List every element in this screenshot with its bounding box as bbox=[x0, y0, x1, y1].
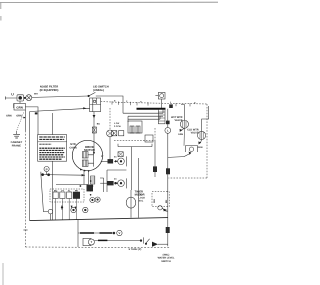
label HOT WTR VALVE bbox=[171, 116, 183, 122]
bus hooks bbox=[128, 110, 163, 123]
svg-text:S THRU (P): S THRU (P) bbox=[129, 248, 142, 251]
contact arrows bbox=[71, 206, 77, 210]
connector J1 (circle with X) bbox=[26, 95, 32, 101]
timer dashed box top bbox=[101, 102, 207, 104]
label: NOISE FILTER (IF EQUIPPED) bbox=[40, 86, 59, 92]
label CABINET FRAME bbox=[11, 141, 23, 147]
small switch boxes bbox=[112, 131, 124, 136]
link wire with raised ends bbox=[118, 144, 152, 147]
wire L1 to lid switch bbox=[32, 96, 88, 97]
small relay box bbox=[145, 135, 153, 142]
hatched coil box bbox=[158, 109, 165, 124]
label WATER LEVEL SWITCH bbox=[158, 253, 175, 262]
dark terminal bbox=[169, 104, 173, 108]
console tick bbox=[23, 229, 27, 231]
page top border bbox=[0, 1, 218, 3]
page bottom-left corner mark bbox=[2, 263, 4, 285]
terminal ticks on timer top bbox=[112, 101, 190, 106]
wire row 1 bbox=[78, 230, 122, 235]
svg-text:GRN: GRN bbox=[198, 146, 203, 149]
terminal mark bbox=[35, 112, 38, 114]
motor terminals bbox=[80, 169, 89, 172]
console dashed left bbox=[24, 131, 26, 248]
wire bbox=[50, 214, 52, 220]
wire row 2 bbox=[94, 240, 142, 242]
vertical wire w dark box bbox=[154, 140, 156, 177]
timer dashed box bottom-right bbox=[169, 177, 208, 179]
drive motor M1 bbox=[72, 140, 102, 170]
svg-text:1 CW: 1 CW bbox=[114, 122, 119, 125]
svg-text:J: J bbox=[170, 101, 171, 104]
circled terminal P bbox=[44, 166, 49, 171]
terminal block on dashed line bbox=[118, 152, 123, 157]
start switch block bbox=[87, 185, 94, 192]
junction dot bbox=[61, 207, 63, 209]
inline connector box bbox=[92, 127, 96, 133]
wire to GRN box bbox=[14, 101, 20, 108]
start winding bar bbox=[91, 176, 95, 184]
wire row 2 terminal box bbox=[83, 238, 94, 245]
dark component on right vertical bbox=[166, 168, 170, 174]
label GRN arrow bbox=[16, 115, 25, 119]
dark component lower bbox=[166, 227, 170, 233]
svg-text:BK: BK bbox=[165, 199, 168, 203]
GRN terminal box bbox=[14, 103, 25, 110]
svg-text:GRN: GRN bbox=[16, 105, 22, 109]
svg-text:FRAME: FRAME bbox=[12, 144, 21, 147]
hot water valve solenoid bbox=[178, 104, 188, 146]
label LID LOCK bbox=[139, 193, 146, 202]
circled terminal T bbox=[48, 209, 53, 214]
start switch assembly top bbox=[56, 184, 88, 186]
svg-text:T: T bbox=[91, 240, 93, 244]
tick bbox=[61, 205, 63, 210]
svg-text:PK: PK bbox=[75, 189, 78, 192]
svg-text:LOCK: LOCK bbox=[139, 196, 146, 199]
svg-text:CONN: CONN bbox=[69, 146, 77, 149]
motor winding 2 bbox=[82, 160, 88, 166]
row A-B link bbox=[107, 170, 126, 192]
motor lead from lid switch bbox=[93, 112, 95, 153]
winding taps bbox=[88, 151, 94, 167]
wire from lid switch to timer bbox=[96, 96, 123, 113]
harness dashed drop bbox=[109, 108, 111, 130]
svg-text:P: P bbox=[46, 167, 48, 171]
console dashed bottom bbox=[25, 246, 170, 249]
wire down to start switch bbox=[41, 175, 48, 212]
junction dot bbox=[24, 97, 26, 99]
svg-text:(IF EQUIPPED): (IF EQUIPPED) bbox=[40, 89, 59, 92]
water level switch contacts bbox=[144, 237, 168, 246]
dark component on wire bbox=[153, 166, 157, 172]
svg-text:GRN: GRN bbox=[6, 114, 12, 117]
timer terminal block with circle bbox=[155, 92, 165, 108]
console inner box left bbox=[29, 112, 31, 221]
loop tail bbox=[162, 208, 168, 211]
terminal letters along timer top bbox=[114, 100, 196, 105]
drop to timer motor bbox=[130, 147, 132, 190]
pressure switch contact bbox=[168, 146, 198, 158]
svg-text:VALVE: VALVE bbox=[175, 119, 183, 122]
power cord lead bbox=[5, 96, 17, 99]
ground (cabinet frame) bbox=[13, 131, 20, 138]
timer main contact bus (thick) bbox=[137, 108, 166, 110]
right bus vertical bbox=[167, 109, 169, 246]
label CLD WTR VALVE bbox=[187, 128, 199, 134]
arrow bbox=[164, 209, 168, 212]
dotted bond to frame bbox=[17, 113, 24, 131]
timer dashed box right bbox=[206, 104, 208, 178]
bus wires bbox=[123, 113, 163, 119]
detail lead stubs bbox=[56, 199, 77, 220]
riser to water level row bbox=[77, 220, 79, 247]
label: LID SWITCH bbox=[93, 86, 109, 92]
switch contacts pair upper bbox=[90, 197, 100, 203]
svg-text:BU: BU bbox=[97, 123, 101, 126]
motor winding 1 bbox=[82, 152, 88, 158]
motor-timer row A bbox=[101, 156, 127, 166]
wire to timer neutral bbox=[25, 107, 38, 135]
lock solenoid dashed box bbox=[152, 192, 169, 207]
svg-text:V: V bbox=[118, 231, 120, 235]
arrow on neutral wire bbox=[83, 107, 86, 109]
svg-text:SWITCH: SWITCH bbox=[161, 260, 171, 263]
svg-text:WH: WH bbox=[153, 199, 156, 203]
motor leads down bbox=[84, 170, 88, 184]
motor switch dashed detail box bbox=[50, 189, 84, 202]
timer contact labels bbox=[101, 122, 121, 181]
detail terminals bbox=[53, 192, 80, 199]
timer cam component bbox=[128, 121, 142, 133]
connector plug (circle X) bbox=[107, 130, 114, 161]
detail labels bbox=[54, 189, 78, 192]
label MTR CONN bbox=[69, 143, 77, 149]
cold water valve solenoid bbox=[198, 106, 209, 149]
mid vertical wire bbox=[138, 158, 140, 218]
svg-text:BU: BU bbox=[54, 189, 58, 192]
circled terminal V bbox=[165, 127, 171, 133]
motor-timer row B bbox=[100, 178, 126, 188]
svg-text:SOL: SOL bbox=[139, 199, 144, 202]
dark blob terminal bbox=[166, 121, 170, 125]
label DRIVE MOTOR bbox=[84, 145, 96, 152]
left stub bbox=[100, 178, 104, 192]
legend box bbox=[38, 135, 67, 162]
switch contacts pair lower bbox=[71, 207, 88, 212]
wire grn down bbox=[24, 110, 26, 131]
svg-text:L: L bbox=[167, 129, 169, 133]
solenoid loop bbox=[158, 206, 162, 210]
svg-text:2 CCW: 2 CCW bbox=[114, 125, 121, 128]
start switch dots bbox=[80, 180, 94, 195]
svg-text:VALVE: VALVE bbox=[191, 131, 199, 134]
neutral wire to lid switch (inner box top) bbox=[30, 108, 90, 111]
svg-text:LID: LID bbox=[139, 193, 143, 196]
wire bbox=[24, 97, 26, 99]
inner partition vertical bbox=[52, 113, 54, 220]
timer dashed inner boundary bbox=[114, 128, 155, 140]
timer motor TM bbox=[126, 190, 136, 218]
page left tick bbox=[0, 3, 2, 21]
arrow on lead bbox=[93, 115, 96, 118]
svg-text:(UNBAL): (UNBAL) bbox=[93, 89, 104, 92]
console inner box bottom bbox=[30, 218, 168, 221]
svg-text:GRN: GRN bbox=[16, 115, 22, 118]
svg-text:GRN: GRN bbox=[178, 133, 183, 136]
svg-text:WH: WH bbox=[34, 93, 38, 96]
lid switch S1 bbox=[88, 92, 101, 111]
label TIMER MOTOR bbox=[135, 190, 145, 196]
noise filter FL1 bbox=[17, 95, 24, 101]
wire with junctions bbox=[41, 172, 85, 177]
